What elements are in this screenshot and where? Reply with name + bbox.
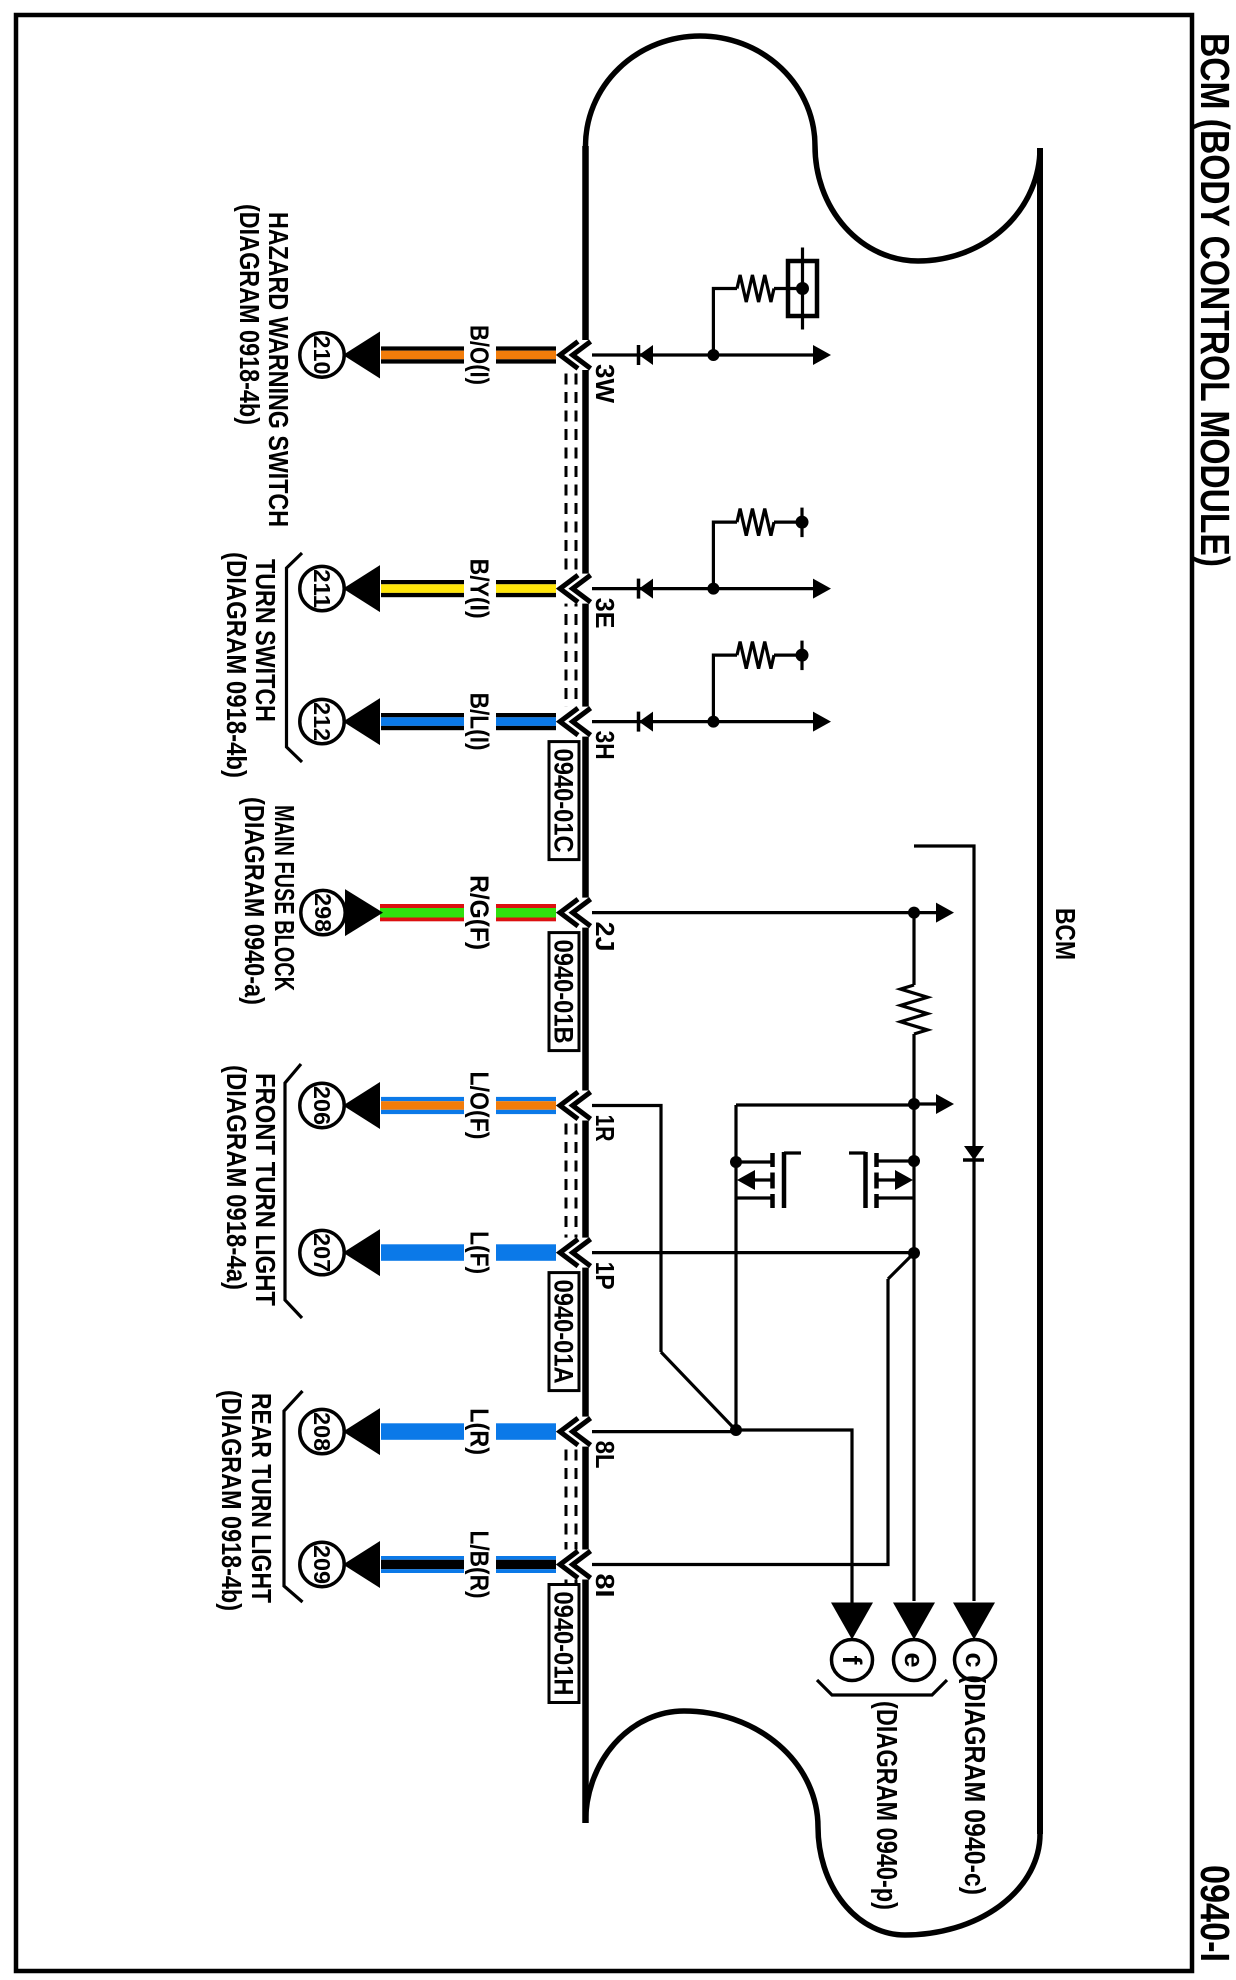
junction node <box>707 583 719 595</box>
wire label B/O(I) <box>464 321 496 389</box>
supply terminal stub <box>800 508 803 537</box>
terminal circle c <box>955 1640 996 1681</box>
Q2 source arrow <box>877 1178 896 1181</box>
module BCM outline (right torn S-edge) <box>586 1711 1041 1935</box>
bracket grouping f and e <box>817 1680 947 1695</box>
in-line connector chevrons at pin 3E <box>556 574 592 604</box>
svg-text:0940-01A: 0940-01A <box>549 1280 579 1384</box>
junction node 1P on rail <box>908 1247 920 1259</box>
terminal node <box>796 649 809 662</box>
svg-text:(DIAGRAM 0918-4b): (DIAGRAM 0918-4b) <box>221 552 252 778</box>
svg-text:8L: 8L <box>590 1441 620 1469</box>
svg-text:0940-01B: 0940-01B <box>549 940 579 1044</box>
diode <box>638 587 653 590</box>
Q2 drain junction node <box>908 1155 920 1167</box>
in-line connector chevrons at pin 2J <box>556 898 592 928</box>
connector circle 211 <box>300 566 344 610</box>
svg-text:REAR TURN LIGHT: REAR TURN LIGHT <box>246 1393 277 1603</box>
transistor Q2 (right-turn high-side FET) <box>874 1153 879 1167</box>
wire 8L pin entry inside module <box>588 1430 736 1433</box>
Q2 drain stub <box>877 1159 915 1162</box>
arrowhead from connector 298 into BCM <box>345 889 383 936</box>
Q1 drain stub <box>736 1160 773 1163</box>
wire pin line inside module x=588.6 <box>588 587 816 590</box>
svg-text:BCM (BODY CONTROL MODULE): BCM (BODY CONTROL MODULE) <box>1192 33 1236 567</box>
svg-text:B/Y(I): B/Y(I) <box>465 559 493 619</box>
arrowhead to connector 208 <box>343 1408 380 1455</box>
terminal circle f <box>832 1640 873 1681</box>
wire rail from 2J junction to e-output <box>912 913 915 1601</box>
svg-text:L(F): L(F) <box>465 1231 493 1274</box>
module BCM outline (left torn S-edge) <box>586 36 1041 261</box>
svg-text:0940-01C: 0940-01C <box>549 749 579 853</box>
wire branch to pull-up <box>774 520 803 523</box>
arrowhead at J2 <box>936 1094 954 1114</box>
in-line connector chevrons at pin 8I <box>556 1550 592 1580</box>
arrowhead to connector 212 <box>343 698 380 745</box>
connector code box 0940-01C <box>549 742 579 860</box>
terminal node <box>796 516 809 529</box>
wire label B/L(I) <box>464 689 496 755</box>
svg-text:209: 209 <box>309 1545 335 1584</box>
wire L(F) (blue) <box>381 1244 588 1261</box>
svg-text:1R: 1R <box>590 1115 620 1142</box>
wire pin line inside module x=355 <box>588 353 816 356</box>
wire branch J1 to diode line (c output) <box>914 846 974 1601</box>
in-line connector chevrons at pin 1P <box>556 1238 592 1268</box>
junction node <box>707 349 719 361</box>
junction node in fuse box <box>796 282 809 295</box>
wire L(R) (blue) <box>381 1423 588 1440</box>
terminal circle e <box>894 1640 935 1681</box>
svg-text:(DIAGRAM 0940-c): (DIAGRAM 0940-c) <box>958 1675 990 1895</box>
svg-text:MAIN FUSE BLOCK: MAIN FUSE BLOCK <box>269 805 300 991</box>
svg-text:TURN SWITCH: TURN SWITCH <box>250 559 281 722</box>
in-line connector chevrons at pin 3W <box>556 340 592 370</box>
connector circle 208 <box>300 1409 344 1453</box>
wire to f output <box>736 1430 852 1604</box>
connector circle 210 <box>300 333 344 377</box>
svg-text:B/L(I): B/L(I) <box>465 693 493 751</box>
bracket REAR TURN LIGHT group <box>284 1391 303 1602</box>
arrowhead to connector 211 <box>343 565 380 612</box>
arrowhead (to BCM logic) <box>813 712 831 732</box>
wire label L(R) <box>464 1404 496 1459</box>
wire diagonal 8I to 1P node <box>888 1254 913 1279</box>
wire pin line inside module x=721.6 <box>588 720 816 723</box>
svg-text:0940-01H: 0940-01H <box>549 1592 579 1696</box>
svg-text:L/B(R): L/B(R) <box>465 1531 493 1599</box>
wire 2J pin line inside module <box>588 911 914 914</box>
junction node 8L/1R/Q1 <box>730 1424 742 1436</box>
svg-text:298: 298 <box>310 893 336 932</box>
wire 8I pin entry inside module <box>588 1279 888 1565</box>
bracket FRONT TURN LIGHT group <box>285 1064 302 1318</box>
Q1 body stub <box>736 1196 773 1199</box>
in-line connector chevrons at pin 1R <box>556 1091 592 1121</box>
dashed connector link 0940-01A (1R-1P) <box>575 1105 578 1272</box>
svg-text:R/G(F): R/G(F) <box>465 875 493 950</box>
wire rail of Q1 (left-turn output) <box>734 1105 737 1430</box>
svg-text:HAZARD WARNING SWITCH: HAZARD WARNING SWITCH <box>263 212 294 527</box>
supply terminal stub <box>800 641 803 671</box>
connector code box 0940-01A <box>549 1273 579 1391</box>
connector circle 207 <box>300 1230 344 1274</box>
svg-text:212: 212 <box>309 702 335 741</box>
svg-text:(DIAGRAM 0918-4a): (DIAGRAM 0918-4a) <box>221 1065 252 1290</box>
wire branch to pull-up <box>774 653 803 656</box>
arrowhead to f <box>831 1603 873 1640</box>
wire branch to pull-up <box>774 287 803 290</box>
wire label B/Y(I) <box>464 555 496 623</box>
svg-text:L(R): L(R) <box>465 1408 493 1455</box>
svg-text:206: 206 <box>309 1086 335 1125</box>
fuse element box <box>788 261 817 316</box>
connector circle 212 <box>300 699 344 743</box>
wire R/G(F) (red/green) <box>380 904 588 908</box>
connector circle 206 <box>300 1083 344 1127</box>
wire L/B(R) (blue/black) <box>381 1556 588 1560</box>
transistor Q1 (left-turn high-side FET) <box>770 1153 775 1167</box>
arrowhead (to BCM logic) <box>813 345 831 365</box>
connector circle 209 <box>300 1542 344 1586</box>
wire through fuse box <box>801 248 804 330</box>
arrowhead at J1 <box>812 912 914 914</box>
svg-text:(DIAGRAM 0918-4b): (DIAGRAM 0918-4b) <box>234 204 265 425</box>
wire B/L(I) (black/blue) <box>381 713 588 717</box>
arrowhead (to BCM logic) <box>813 579 831 599</box>
wire B/O(I) (black/orange) <box>381 346 588 350</box>
wire diagonal 1R to 8L node <box>661 1352 735 1430</box>
svg-text:208: 208 <box>309 1412 335 1451</box>
dashed connector link 0940-01C (3W-3E-3H) <box>575 355 578 742</box>
diode <box>638 720 653 723</box>
module BCM outline (bottom edge) <box>582 146 589 1823</box>
wire label R/G(F) <box>464 871 496 954</box>
diode <box>638 353 653 356</box>
svg-text:207: 207 <box>309 1233 335 1272</box>
connector circle 298 <box>301 890 345 934</box>
svg-text:L/O(F): L/O(F) <box>465 1072 493 1140</box>
svg-text:B/O(I): B/O(I) <box>465 325 493 385</box>
svg-text:(DIAGRAM 0940-p): (DIAGRAM 0940-p) <box>870 1701 902 1910</box>
svg-text:1P: 1P <box>590 1262 620 1290</box>
junction node J2 <box>908 1098 920 1110</box>
svg-text:0940-I: 0940-I <box>1192 1865 1236 1962</box>
arrowhead to connector 206 <box>343 1082 380 1129</box>
dashed connector link 0940-01H (8L-8I) <box>575 1431 578 1586</box>
svg-text:3W: 3W <box>590 364 620 403</box>
arrowhead to connector 207 <box>343 1229 380 1276</box>
wire 1R pin entry inside module <box>588 1106 661 1353</box>
resistor on rail (between J1 and J2) <box>897 985 931 1034</box>
connector code box 0940-01B <box>549 933 579 1051</box>
in-line connector chevrons at pin 3H <box>556 707 592 737</box>
connector code box 0940-01H <box>549 1585 579 1703</box>
wire label L(F) <box>464 1227 496 1278</box>
svg-text:3H: 3H <box>590 731 620 760</box>
Q1 source arrow <box>755 1178 773 1181</box>
wire vertical link J2 rail to left FET rail <box>736 1103 914 1106</box>
bracket TURN SWITCH group <box>287 553 303 762</box>
svg-text:f: f <box>837 1656 867 1666</box>
arrowhead to connector 209 <box>343 1541 380 1588</box>
junction node <box>707 716 719 728</box>
Q2 body stub <box>877 1196 915 1199</box>
svg-text:FRONT TURN LIGHT: FRONT TURN LIGHT <box>250 1073 281 1306</box>
svg-text:BCM: BCM <box>1050 908 1081 960</box>
wire B/Y(I) (black/yellow) <box>381 580 588 584</box>
svg-text:211: 211 <box>309 569 335 608</box>
svg-text:210: 210 <box>309 336 335 375</box>
svg-text:(DIAGRAM 0940-a): (DIAGRAM 0940-a) <box>239 797 270 1005</box>
svg-text:2J: 2J <box>590 922 620 952</box>
svg-text:e: e <box>899 1652 929 1667</box>
junction node J1 on 2J rail <box>908 907 920 919</box>
arrowhead to e <box>893 1603 935 1640</box>
module BCM outline (top edge) <box>1037 148 1043 1834</box>
wire label L/O(F) <box>464 1068 496 1144</box>
svg-text:c: c <box>960 1652 990 1667</box>
svg-text:(DIAGRAM 0918-4b): (DIAGRAM 0918-4b) <box>216 1390 247 1611</box>
svg-text:3E: 3E <box>590 598 620 629</box>
svg-text:8I: 8I <box>590 1574 620 1598</box>
Q1 drain junction node <box>730 1156 742 1168</box>
diode to c <box>964 1146 984 1160</box>
wire label L/B(R) <box>464 1527 496 1603</box>
wire L/O(F) (blue/orange) <box>381 1097 588 1101</box>
in-line connector chevrons at pin 8L <box>556 1417 592 1447</box>
arrowhead to connector 210 <box>343 332 380 379</box>
wire 1P pin entry inside module <box>588 1251 914 1254</box>
arrowhead to c <box>953 1603 995 1640</box>
